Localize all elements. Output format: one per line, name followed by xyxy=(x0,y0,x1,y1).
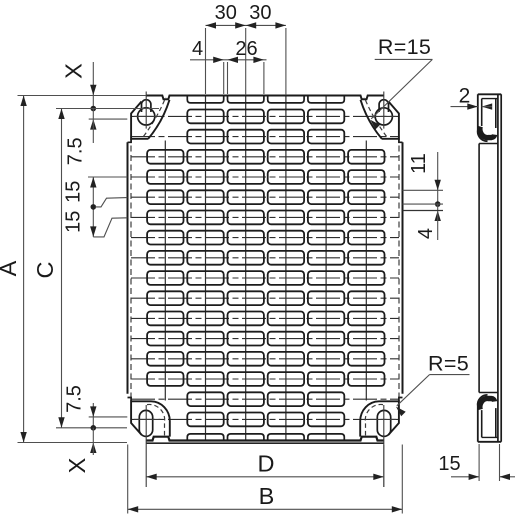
svg-text:15: 15 xyxy=(63,211,85,233)
svg-text:4: 4 xyxy=(192,38,203,60)
svg-text:D: D xyxy=(258,451,275,477)
svg-text:15: 15 xyxy=(63,181,85,203)
svg-text:30: 30 xyxy=(215,2,237,24)
svg-text:B: B xyxy=(259,483,275,509)
svg-text:7.5: 7.5 xyxy=(65,137,87,165)
svg-text:A: A xyxy=(0,260,21,276)
svg-text:X: X xyxy=(64,457,90,473)
svg-text:4: 4 xyxy=(415,228,437,239)
svg-text:X: X xyxy=(61,63,87,79)
svg-text:30: 30 xyxy=(249,2,271,24)
svg-text:15: 15 xyxy=(438,453,460,475)
svg-text:C: C xyxy=(32,261,58,278)
svg-text:R=5: R=5 xyxy=(428,352,469,376)
svg-text:R=15: R=15 xyxy=(378,35,431,59)
svg-text:7.5: 7.5 xyxy=(64,385,86,413)
svg-text:2: 2 xyxy=(459,85,471,108)
svg-text:11: 11 xyxy=(408,153,430,174)
svg-text:26: 26 xyxy=(235,38,257,60)
